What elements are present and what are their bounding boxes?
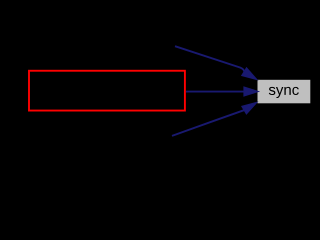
arrowhead: middle edge: [244, 87, 259, 96]
node: red-bordered caller box (label invisible on black): [29, 71, 185, 111]
arrowhead: bottom edge: [242, 102, 258, 114]
wire: top edge into sync: [175, 46, 244, 71]
wire: bottom edge into sync: [172, 110, 244, 136]
node sync: gray current-node box: [258, 80, 311, 104]
label sync: [269, 87, 299, 98]
arrowhead: top edge: [242, 68, 258, 80]
wire: middle edge from red box to sync: [186, 91, 244, 93]
